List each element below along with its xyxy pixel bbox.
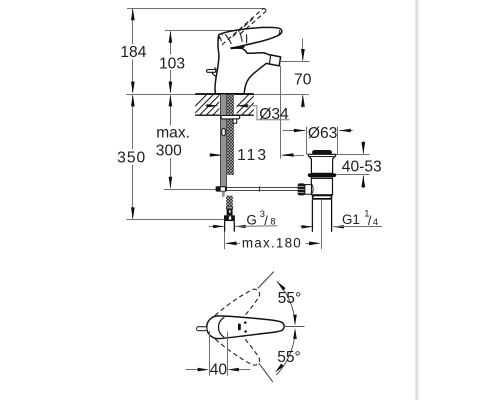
mounting washer under deck — [221, 116, 240, 119]
dimension 113 — [212, 155, 221, 157]
svg-text:/: / — [264, 213, 268, 228]
dimension 40-53 (deck thickness range) — [336, 154, 369, 156]
svg-text:Ø63: Ø63 — [308, 125, 337, 142]
card divider line (right edge of product image area) — [415, 0, 417, 400]
mounting nut step — [233, 119, 237, 123]
top view: swung lever position, dashed (upper, +55&#176;) — [203, 283, 266, 342]
countertop slab right of hole, hatched — [228, 93, 283, 115]
hose collar (white band) — [226, 207, 232, 209]
leader to label — [248, 106, 290, 120]
svg-text:70: 70 — [294, 72, 312, 89]
drain pull-rod knob on body — [207, 70, 216, 73]
svg-text:G: G — [246, 213, 256, 228]
svg-text:4: 4 — [373, 216, 378, 227]
dimension 103 (height to lever) — [170, 32, 172, 55]
top view: indicator bar — [238, 324, 241, 331]
arc upper 55 — [277, 281, 295, 323]
hole diameter arrows in deck — [205, 105, 217, 107]
threaded shank / braided hose column — [227, 95, 234, 176]
hose ferrule — [227, 209, 233, 216]
pop-up waste: tailpipe — [311, 200, 313, 232]
adjuster knob (knurled) — [298, 183, 305, 195]
faucet body and lever, side view — [215, 27, 282, 93]
horizontal pop-up rod (double line) — [227, 187, 298, 189]
aerator divider line — [269, 55, 270, 64]
pop-up waste: bottom band — [312, 195, 332, 200]
countertop slab left of hole, hatched — [186, 93, 247, 115]
svg-text:8: 8 — [270, 216, 275, 227]
svg-text:350: 350 — [117, 150, 146, 167]
svg-text:max.180: max.180 — [242, 236, 302, 251]
top view: indicator dots — [244, 321, 247, 324]
lever sculpt line 2 — [240, 32, 243, 42]
svg-text:/: / — [368, 213, 372, 228]
extension line: bottom end of supply hoses (350 ref) — [126, 219, 224, 221]
extension line from aerator outlet — [281, 61, 310, 63]
radial line lower 55 — [259, 363, 273, 382]
dimension Ø63 (flange diameter) — [306, 127, 308, 155]
top view: lever body (solid) — [207, 316, 284, 339]
countertop bottom edge — [195, 114, 254, 116]
cap seam arc — [219, 36, 221, 41]
svg-text:55°: 55° — [277, 349, 301, 366]
extension line: top of raised lever (y=8) — [127, 8, 264, 10]
svg-text:113: 113 — [237, 147, 268, 164]
rod joint tick — [259, 186, 261, 191]
svg-text:Ø34: Ø34 — [259, 106, 289, 123]
lever underside shadow line — [231, 47, 245, 49]
pop-up linkage clamp — [216, 186, 227, 191]
arc lower 55 — [276, 332, 295, 375]
lever sculpt line 3 — [245, 34, 247, 43]
G 3/8 connection nut — [224, 215, 235, 221]
dimension 184 (height to raised lever) — [132, 9, 134, 44]
clamp lower stub — [222, 192, 225, 197]
extension line: top of lever at rest (y=30.5) — [165, 30, 232, 32]
ball joint arc inside body — [311, 184, 313, 194]
pop-up waste: flange — [308, 154, 336, 173]
extension line: countertop level, spans full drawing — [126, 94, 309, 96]
countertop top edge (thick) — [195, 93, 254, 95]
dimension max.180 (hose to waste distance) — [224, 231, 226, 249]
dimension G 3/8 (supply connection thread) — [209, 226, 224, 228]
pull rod / sleeve (gray) through deck — [220, 95, 226, 187]
top view: cap seam arc — [219, 317, 225, 337]
pop-up waste: body — [311, 177, 332, 195]
svg-text:184: 184 — [120, 44, 146, 61]
svg-text:103: 103 — [159, 56, 185, 73]
svg-text:300: 300 — [156, 142, 182, 159]
dimension G 1 1/4 (waste thread) — [300, 226, 312, 228]
centerline right of lever tip — [284, 326, 305, 328]
vertical reference line from aerator outlet — [280, 66, 282, 159]
svg-text:max.: max. — [156, 124, 190, 141]
svg-text:55°: 55° — [278, 290, 302, 307]
top view: swung lever position, dashed (lower, -55&#176;) — [203, 312, 266, 371]
svg-text:40: 40 — [210, 362, 228, 379]
raised lever, dashed outline — [218, 9, 267, 45]
extension line: max.300 bottom ref at pop-up rod level — [164, 189, 216, 191]
pop-up waste: plug cap — [312, 150, 332, 154]
pop-up waste: O-ring (black band) — [308, 173, 336, 177]
slot on pull rod — [222, 129, 225, 136]
connection tube end (open) — [224, 221, 226, 232]
lever tip inner line — [278, 30, 279, 34]
dimension 40 (pin offset) — [209, 331, 211, 376]
lever sculpt line 1 — [225, 34, 231, 44]
braided hose lower section — [226, 196, 233, 208]
knob stem — [305, 185, 312, 195]
dimension 350 (hose length below deck) — [132, 96, 134, 150]
dimension max. 300 — [170, 96, 172, 126]
svg-text:G1: G1 — [342, 212, 360, 227]
radial line upper 55 — [258, 272, 274, 289]
svg-text:40-53: 40-53 — [342, 158, 382, 175]
top view: pull-rod pin at left — [197, 327, 207, 331]
